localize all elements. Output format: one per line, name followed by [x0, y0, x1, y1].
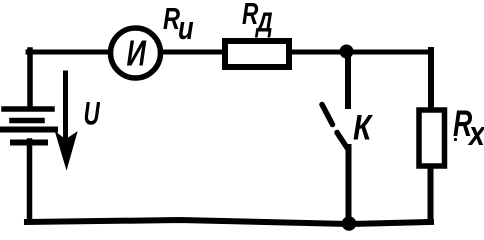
svg-text:и: и — [178, 11, 194, 46]
wire Rd to node A to top-right corner — [288, 50, 432, 55]
node A (top junction) — [340, 45, 354, 59]
battery GB plate long 1 — [4, 106, 52, 112]
meter U1 circle — [111, 28, 161, 78]
svg-text:К: К — [353, 108, 373, 147]
wire right vertical (top) — [428, 50, 434, 110]
label R_и — [163, 1, 194, 47]
wire left vertical (top) — [27, 50, 33, 108]
switch K bottom wire — [346, 147, 352, 221]
svg-text:И: И — [127, 33, 147, 74]
switch K top stub — [345, 52, 351, 106]
wire Rx bottom lead — [428, 164, 434, 221]
wire meter to Rd — [161, 50, 226, 55]
battery GB plate short 2 — [12, 118, 42, 124]
wire bottom return — [27, 220, 431, 224]
voltage arrow U — [57, 73, 77, 167]
battery GB plate short 4 — [13, 140, 45, 146]
svg-text:x: x — [467, 115, 484, 153]
label R_x — [453, 103, 484, 153]
resistor Rd body — [225, 41, 289, 67]
svg-text:Д: Д — [255, 7, 273, 38]
battery GB plate long 3 — [1, 127, 55, 133]
svg-text:U: U — [84, 96, 101, 132]
stray ink dot — [454, 138, 457, 141]
wire top-left (battery to meter) — [28, 50, 110, 55]
wire left vertical (bottom) — [27, 141, 33, 220]
node B (bottom junction) — [342, 216, 357, 231]
resistor Rx body — [419, 110, 445, 166]
switch K blade — [322, 105, 348, 149]
label R_д — [242, 0, 273, 38]
